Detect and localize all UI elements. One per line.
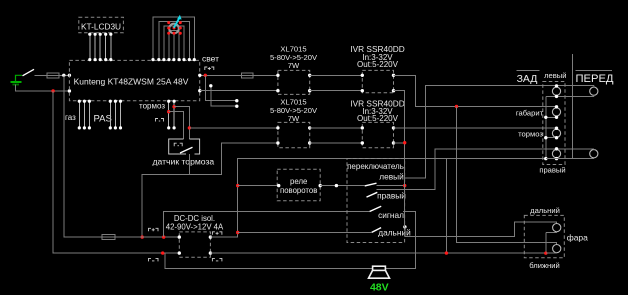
rear lamp group box (543, 82, 565, 165)
high beam contact dot (403, 225, 406, 228)
wire LCD pin 4 (105, 34, 107, 60)
svg-text:тормоз: тормоз (139, 102, 165, 111)
IVR2 pin dots (361, 126, 396, 144)
junction light tap (204, 74, 207, 77)
front lamps upper return wire (572, 54, 574, 159)
svg-text:переключатель: переключатель (347, 162, 404, 171)
PAS wire 3 (120, 101, 122, 128)
brake sensor connector glyph (174, 143, 182, 146)
brake wire 2 (173, 101, 175, 128)
svg-text:реле: реле (290, 177, 307, 186)
svg-text:ближний: ближний (529, 261, 559, 270)
wire IVR2 outA to brake lamp row (394, 127, 557, 129)
marker lamp feed jog (556, 107, 558, 108)
svg-text:датчик тормоза: датчик тормоза (153, 157, 215, 167)
XL2 pin dots (276, 126, 311, 144)
junction IVR2 outB (403, 141, 406, 144)
svg-text:свет: свет (202, 54, 219, 64)
wire brake row to XL7015 no2 input A (189, 127, 278, 129)
brake row feed junction (188, 126, 191, 129)
converter DC-DC box (179, 232, 210, 257)
throttle wire 3 (88, 101, 90, 128)
svg-text:дальний: дальний (530, 206, 560, 215)
front lights header line (575, 70, 612, 72)
wire IVR2 outB join (394, 142, 405, 144)
fuse F3 (242, 73, 254, 78)
lamp right-rear (552, 150, 560, 158)
brake lamp bottom wire (546, 137, 557, 139)
wire LCD pin 3 (99, 34, 101, 60)
wire fuse F2 to DC-DC in+ (115, 236, 179, 238)
right turn switch blade (367, 192, 378, 197)
motor phase wire U loop 3 (164, 26, 184, 60)
wire battery minus down and right to controller B- (16, 85, 70, 92)
IVR1 pin dots (361, 74, 396, 93)
svg-text:правый: правый (377, 191, 406, 201)
left turn contact wire (377, 185, 405, 187)
converter XL7015 no2 box (278, 122, 310, 147)
svg-text:тормоз: тормоз (518, 130, 543, 139)
wire switch to fuse F1 (35, 74, 48, 76)
motor wire end dots on controller top (151, 58, 196, 61)
wire 48V- to DC-DC in- (55, 252, 179, 254)
wire controller V+ out row A (200, 74, 242, 76)
svg-text:7W: 7W (288, 114, 300, 123)
wire right turn contact to lamps (376, 149, 594, 190)
throttle wire 2 (83, 101, 85, 128)
wire 12V to headlight return bus (238, 232, 372, 234)
relay IVR no2 box (362, 122, 393, 147)
wire fuse F1 to controller B+ (59, 74, 69, 76)
lamp left-rear bottom dot (555, 95, 558, 98)
wire left turn to lamps (405, 86, 594, 186)
brake connector glyph (156, 119, 164, 122)
right-front lamp stubs (593, 149, 595, 159)
wire IVR1 outB down the switch column (394, 91, 405, 227)
DC-DC pin dots (178, 235, 212, 254)
wire fuse F3 to XL7015 no1 input A (253, 74, 278, 76)
marker lamp bottom wire (546, 116, 557, 118)
wire horn return down (165, 253, 373, 268)
DC-DC connector glyph left plus (149, 228, 159, 231)
node battery minus junction (51, 89, 54, 92)
junction signal-horn feed on 48V+ (162, 235, 165, 238)
motor hall wire U loop 4 (169, 30, 179, 60)
junction headlight return on 12V- (544, 252, 547, 255)
light connector glyph (205, 67, 214, 70)
high beam switch blade (372, 228, 381, 233)
wire brake tap1 to sensor box (174, 107, 189, 139)
turn relay box реле поворотов (277, 169, 320, 200)
brake wire dots (167, 100, 176, 130)
svg-text:газ: газ (65, 113, 76, 122)
headlight group box фара (524, 215, 564, 257)
svg-text:сигнал: сигнал (378, 210, 404, 220)
wire lamp return bus to 12V- rail (445, 159, 447, 253)
wire light branch 2 (211, 86, 237, 106)
brake tap junction 2 (167, 110, 170, 113)
fuse F2 (48V+ bottom) (102, 235, 115, 240)
svg-text:ЗАД: ЗАД (517, 73, 538, 85)
light branch 2 dots (209, 84, 212, 87)
svg-text:левый: левый (379, 172, 404, 182)
lamp right-front (590, 150, 598, 158)
wire XL2 outB to IVR2 inB (310, 142, 363, 144)
brake lamp dots (555, 127, 558, 130)
svg-text:Out:5-220V: Out:5-220V (357, 114, 399, 123)
svg-text:DC-DC isol.: DC-DC isol. (174, 214, 215, 223)
display connector KT-LCD3U box (79, 17, 124, 33)
connector dot on relay-switch wire (335, 184, 338, 187)
wire controller row B to XL7015 no1 input B (200, 90, 278, 92)
wire turn relay out to switch box (320, 185, 365, 187)
throttle wire 1 (78, 101, 80, 128)
svg-text:42-90V->12V 4A: 42-90V->12V 4A (166, 223, 224, 232)
brake sensor switch blade (180, 147, 193, 153)
svg-text:фара: фара (567, 233, 588, 243)
brake wire 1 (168, 101, 170, 128)
right lamps bottom wire (546, 158, 594, 160)
wire LCD pin 1 (89, 34, 91, 60)
turn relay pin dots (277, 184, 280, 187)
left turn contact junction (403, 184, 406, 187)
fuse F1 (47, 73, 59, 78)
lamp left-front (590, 87, 598, 95)
junction 12V corner (236, 231, 239, 234)
lamp left-rear top dot (555, 84, 558, 87)
rear lights header line (516, 70, 539, 72)
lamp left-rear (552, 87, 560, 95)
motor connector pointer (cyan) (174, 18, 179, 28)
light branch 1 end dot (235, 99, 238, 102)
lamp brake-rear (552, 129, 560, 137)
DC-DC connector glyph right plus (212, 232, 222, 235)
horn symbol (369, 266, 390, 278)
headlight return bus (545, 233, 547, 254)
wire 48V- rail down left side to DC-DC (53, 91, 55, 253)
wire light branch 1 (205, 75, 237, 100)
battery 48V pack (11, 75, 23, 84)
wire 48V+ up to signal switch row (164, 211, 370, 237)
motor connector circle (169, 24, 179, 34)
wire IVR1 outA to marker lamp row (394, 75, 557, 106)
throttle and PAS wire end dots (78, 100, 122, 130)
brake lamp feed jog (556, 128, 558, 129)
svg-text:правый: правый (539, 166, 565, 175)
svg-text:7W: 7W (288, 61, 300, 70)
junction brake sensor to 48V+ (141, 235, 144, 238)
junction marker to low beam feed (455, 105, 458, 108)
horn switch blade (370, 206, 382, 211)
lamp marker-rear (552, 108, 560, 116)
high beam bottom wire (546, 231, 557, 234)
wire XL1 outA to IVR1 inA (310, 74, 363, 76)
low beam bottom wire (546, 252, 557, 255)
wire DC-DC out- long 12V- rail (210, 252, 556, 254)
svg-text:48V: 48V (370, 282, 389, 294)
motor connector pin dots (167, 21, 182, 35)
lamp low beam (553, 245, 561, 253)
converter XL7015 no1 box (278, 70, 310, 94)
lamp right-rear dots (555, 147, 558, 150)
wire XL2 outA to IVR2 inA (310, 127, 363, 129)
motor hall wire center stub (173, 34, 175, 61)
PAS wire 2 (114, 101, 116, 128)
brake tap junction 1 (172, 105, 175, 108)
svg-text:поворотов: поворотов (280, 186, 317, 195)
controller Kunteng KT48ZWSM box (69, 60, 199, 100)
marker lamp dots (555, 105, 558, 108)
wire brake sensor out down-left to 48V+ rail (142, 154, 189, 237)
left-front lamp stubs (593, 86, 595, 97)
junction return bus on 12V- (445, 251, 448, 254)
svg-text:PAS: PAS (94, 114, 112, 125)
wire LCD pin 2 (94, 34, 96, 60)
lamp high beam (553, 224, 561, 232)
wire 48V+ rail down left side to bottom fuse F2 (64, 75, 102, 237)
DC-DC connector glyph left minus (149, 258, 159, 261)
svg-text:левый: левый (544, 71, 566, 80)
DC-DC connector glyph right minus (212, 258, 222, 261)
wire brake tap2 to sensor box (169, 112, 184, 139)
wire 12V to turn relay input (238, 185, 279, 187)
node B+ junction dots (62, 74, 65, 77)
wire XL1 outB to IVR1 inB (310, 90, 363, 92)
wire LCD pin 5 (110, 34, 112, 60)
svg-text:ПЕРЕД: ПЕРЕД (575, 73, 613, 85)
svg-text:габарит: габарит (516, 109, 544, 118)
svg-text:KT-LCD3U: KT-LCD3U (81, 21, 121, 31)
controller right edge dots (198, 74, 201, 77)
wire sensor net right and up to XL no2 input B (189, 143, 278, 175)
junction horn return on 48V- (161, 251, 164, 254)
left lamps bottom wire (546, 95, 594, 97)
motor phase wire U loop 2 (159, 22, 190, 61)
svg-text:дальний: дальний (378, 227, 411, 237)
relay IVR no1 box (362, 70, 393, 92)
XL1 pin dots (276, 74, 311, 93)
brake sensor box датчик тормоза (169, 139, 200, 154)
motor phase wire U loop 1 (153, 17, 194, 60)
PAS wire 1 (109, 101, 111, 128)
wire DC-DC out+ jog up to 12V rail (210, 159, 546, 238)
rear return bus wire (545, 96, 547, 158)
horn contact wire down to horn (386, 211, 416, 268)
junction turn relay feed (236, 184, 239, 187)
left turn switch blade (365, 183, 377, 186)
svg-text:Out:5-220V: Out:5-220V (357, 60, 399, 69)
wire high beam contact to lamp (405, 222, 557, 237)
LCD wire end dots (88, 33, 112, 62)
main power switch S1 (23, 69, 35, 76)
svg-text:Kunteng KT48ZWSM 25A 48V: Kunteng KT48ZWSM 25A 48V (74, 76, 189, 86)
handlebar switch box переключатель (347, 159, 405, 243)
wire low beam feed down (457, 107, 557, 245)
